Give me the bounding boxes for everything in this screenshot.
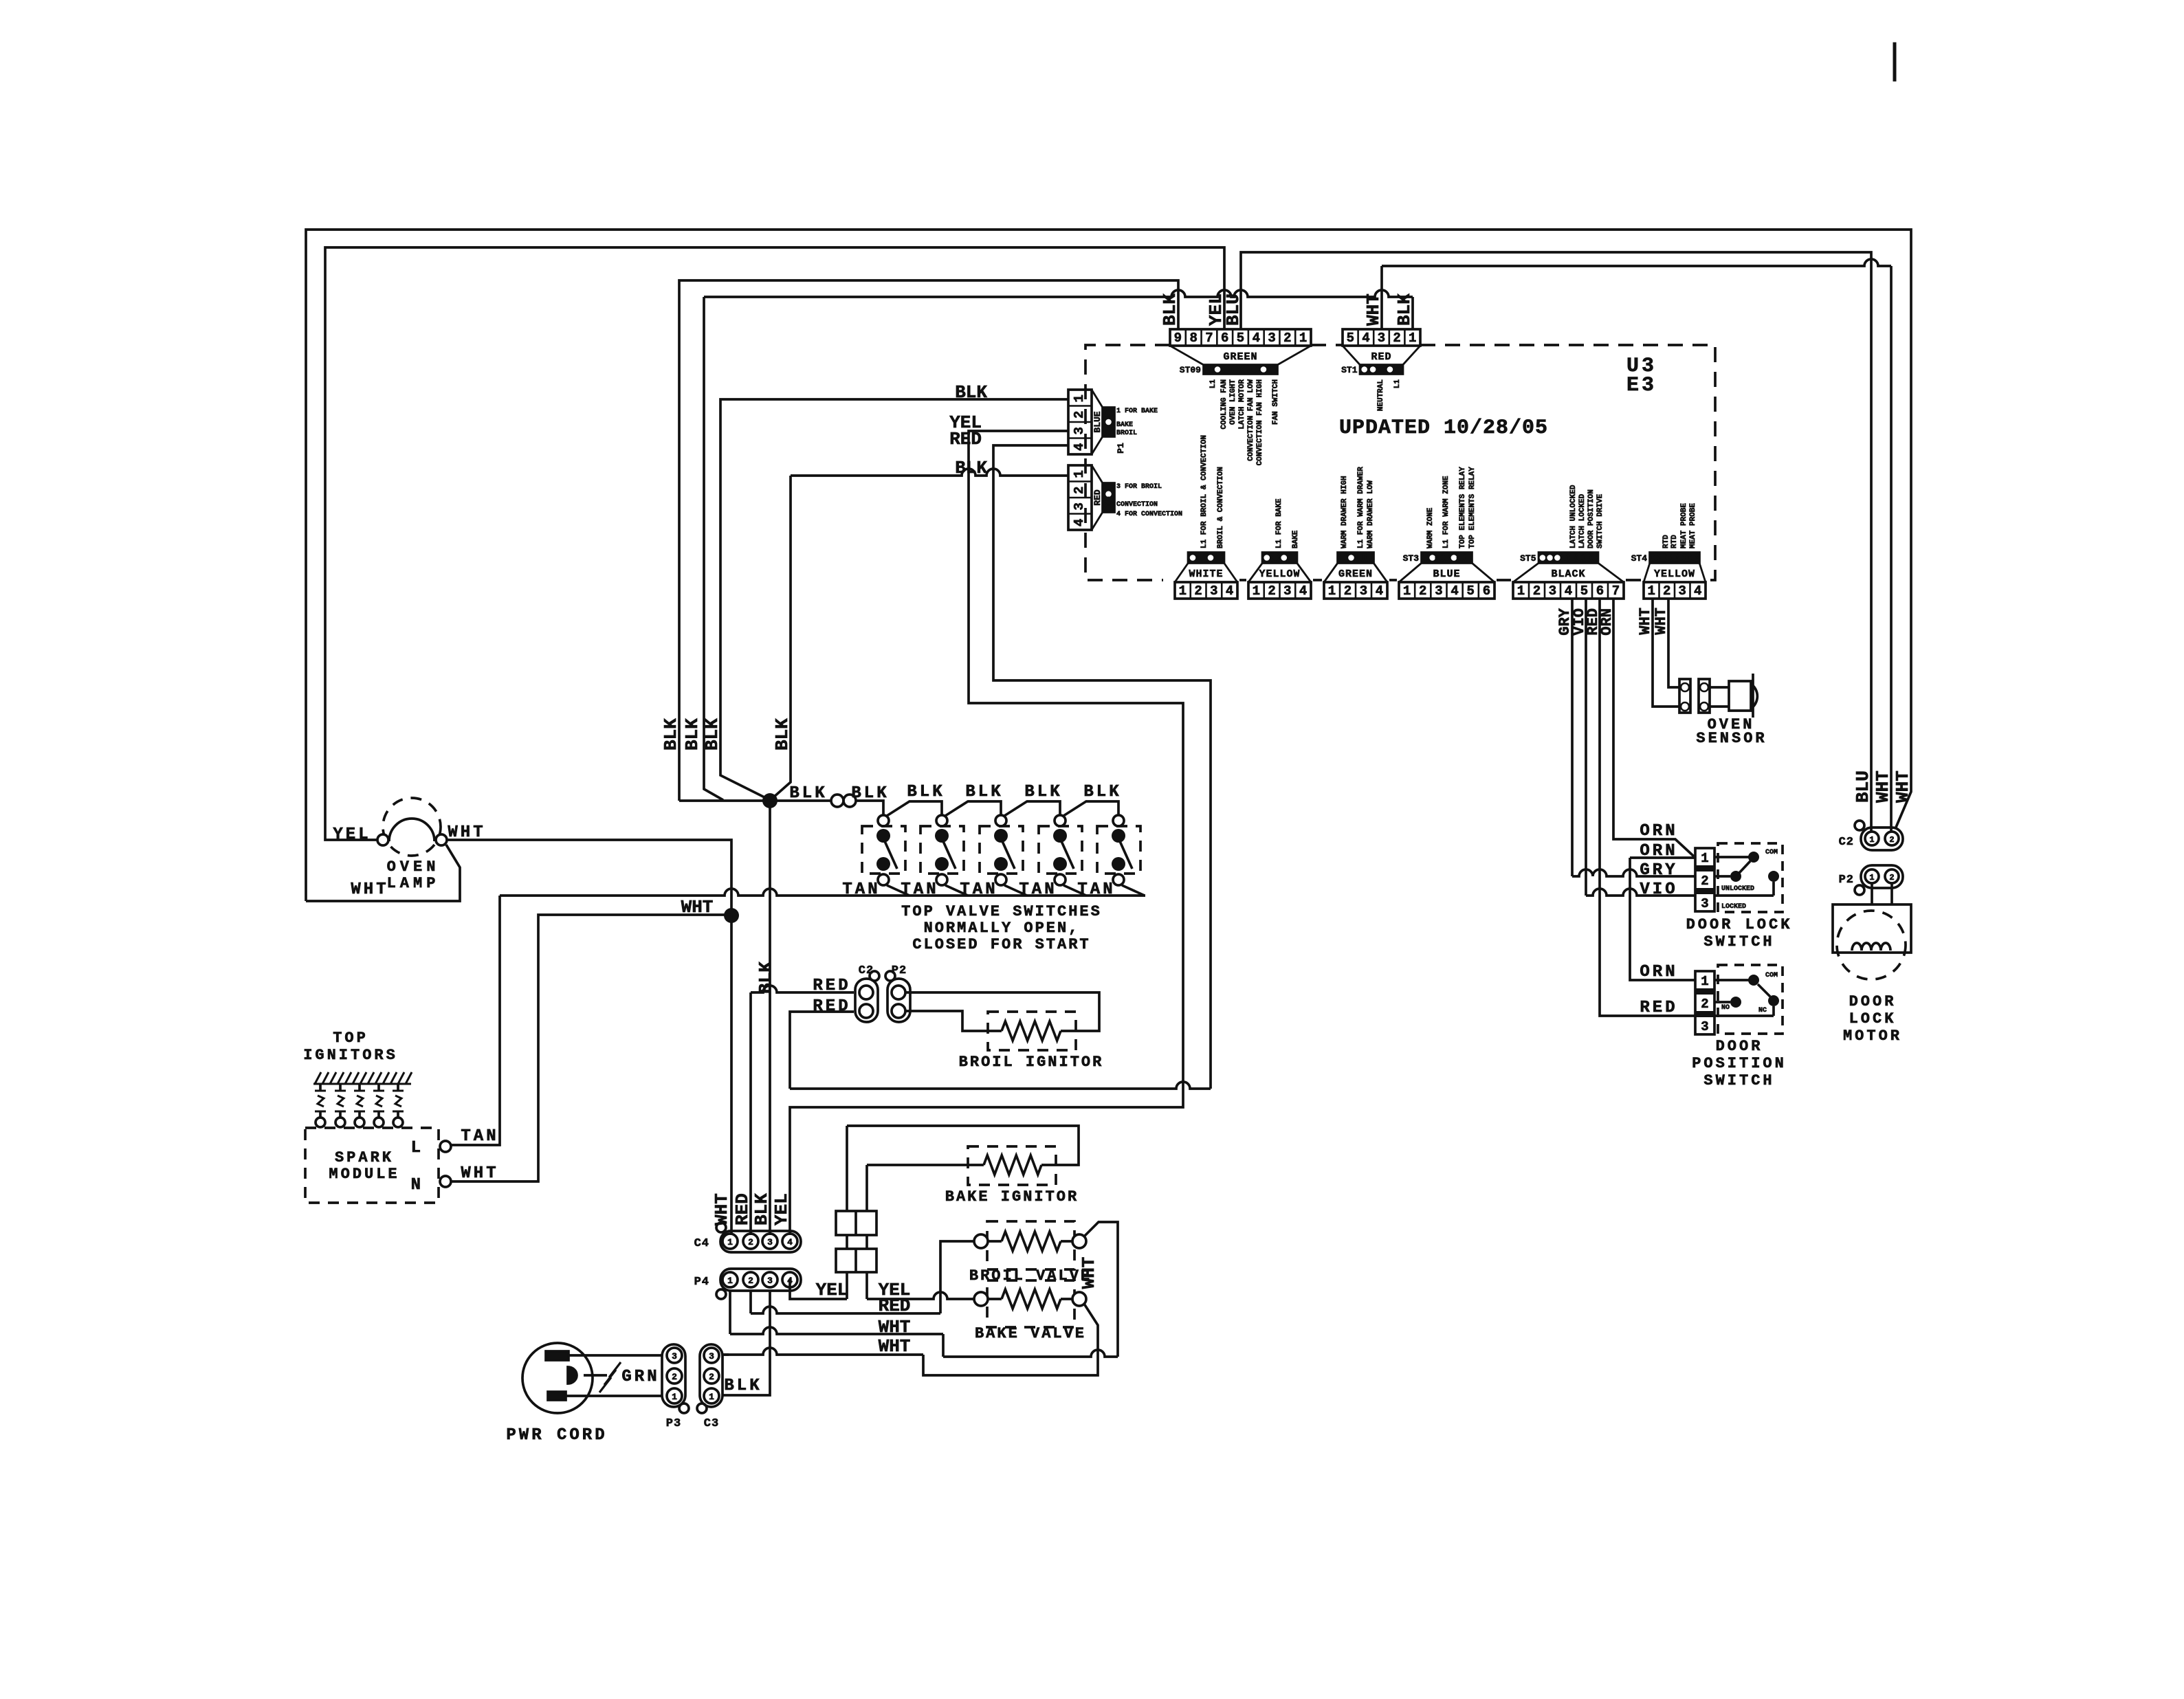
wire bake ignitor loop: [847, 1126, 1079, 1165]
wire WHT spark module N to J2: [451, 915, 731, 1181]
svg-text:BLK: BLK: [851, 784, 889, 803]
svg-text:YELLOW: YELLOW: [1654, 568, 1695, 580]
svg-text:WARM DRAWER LOW: WARM DRAWER LOW: [1367, 480, 1375, 548]
svg-text:1: 1: [727, 1237, 733, 1247]
wire BLK RED-left pin1: [791, 469, 1068, 476]
wire ORN branch to door position switch: [1630, 856, 1695, 859]
svg-text:P1: P1: [1116, 443, 1126, 454]
svg-text:4: 4: [1226, 584, 1233, 599]
top ignitor 5: [397, 1084, 399, 1091]
svg-text:5: 5: [1467, 584, 1475, 599]
svg-text:BLUE: BLUE: [1433, 568, 1460, 580]
top valve switch SW3: [980, 826, 1023, 874]
svg-text:3: 3: [1268, 331, 1275, 346]
svg-text:MEAT PROBE: MEAT PROBE: [1680, 503, 1688, 548]
svg-text:BLK: BLK: [1083, 783, 1121, 801]
connector WHITE board bottom: [1175, 582, 1237, 599]
svg-text:1: 1: [1253, 584, 1260, 599]
svg-text:COM: COM: [1765, 972, 1778, 979]
svg-text:8: 8: [1189, 331, 1197, 346]
svg-text:LATCH UNLOCKED: LATCH UNLOCKED: [1569, 485, 1578, 548]
svg-text:4: 4: [1253, 331, 1260, 346]
wire BLK C3 pin1 to P4 pin3: [723, 1291, 770, 1395]
svg-text:SPARK: SPARK: [335, 1149, 394, 1166]
svg-text:2: 2: [1889, 873, 1894, 882]
svg-text:1 FOR BAKE: 1 FOR BAKE: [1116, 408, 1158, 415]
svg-text:3: 3: [672, 1351, 677, 1362]
wire YEL oven lamp to GREEN pin6: [325, 247, 1224, 840]
svg-text:3: 3: [1701, 896, 1708, 911]
wire pwr cord to P3 pin1: [566, 1395, 662, 1397]
connector P1 BLUE board left: [1068, 390, 1092, 454]
connector BLACK ST5 board bottom: [1513, 582, 1624, 599]
wire WHT YELLOW-ST4 pin1 to oven sensor: [1653, 599, 1679, 707]
pwr cord prong top: [546, 1351, 569, 1360]
door lock motor coil: [1852, 943, 1890, 951]
svg-text:BAKE: BAKE: [1116, 421, 1133, 429]
svg-text:POSITION: POSITION: [1692, 1055, 1787, 1072]
node J2 white junction: [724, 908, 739, 923]
oven sensor leads: [1710, 686, 1729, 689]
svg-text:7: 7: [1205, 331, 1213, 346]
svg-text:BLU: BLU: [1223, 293, 1244, 326]
svg-text:COM: COM: [1765, 849, 1778, 856]
svg-text:C4: C4: [694, 1237, 709, 1250]
node J1 black junction: [679, 799, 770, 802]
svg-text:BLK: BLK: [661, 718, 681, 751]
svg-text:NEUTRAL: NEUTRAL: [1377, 379, 1385, 412]
wire WHT lamp-right to J2: [448, 840, 731, 911]
svg-text:BLK: BLK: [789, 784, 827, 803]
svg-text:YEL: YEL: [771, 1193, 792, 1225]
svg-text:BROIL & CONVECTION: BROIL & CONVECTION: [1217, 467, 1225, 548]
svg-text:6: 6: [1221, 331, 1228, 346]
svg-text:WHT: WHT: [712, 1193, 732, 1225]
bake valve dashed box: [987, 1280, 1074, 1327]
svg-text:WHITE: WHITE: [1189, 568, 1223, 580]
connector P3: [662, 1344, 685, 1407]
top ignitor 3: [358, 1084, 361, 1091]
door lock switch dashed box: [1718, 843, 1783, 912]
svg-text:UPDATED 10/28/05: UPDATED 10/28/05: [1339, 417, 1548, 440]
top valve switch SW2: [920, 826, 964, 874]
svg-text:3 FOR BROIL: 3 FOR BROIL: [1116, 483, 1162, 491]
svg-text:SENSOR: SENSOR: [1696, 730, 1767, 747]
connector C3: [700, 1344, 723, 1407]
door lock switch contacts: [1714, 856, 1749, 858]
ground symbol GRN: [609, 1362, 621, 1377]
svg-text:L1 FOR WARM DRAWER: L1 FOR WARM DRAWER: [1357, 467, 1365, 548]
spark module dashed box: [305, 1128, 439, 1203]
svg-text:3: 3: [1549, 584, 1556, 599]
svg-text:RED: RED: [813, 977, 850, 995]
wire block links: [846, 1235, 848, 1249]
svg-text:4: 4: [1451, 584, 1458, 599]
svg-text:4: 4: [1565, 584, 1572, 599]
svg-text:4: 4: [1376, 584, 1383, 599]
wire pwr cord to P3 pin3: [569, 1354, 662, 1357]
stray scan mark: [1893, 43, 1896, 81]
svg-text:MEAT PROBE: MEAT PROBE: [1689, 503, 1697, 548]
wire P2 to broil ignitor loop: [905, 992, 1099, 1031]
svg-text:2: 2: [1072, 411, 1087, 419]
wire GRY BLACK pin4 to door lock switch: [1571, 599, 1574, 876]
svg-text:TOP: TOP: [333, 1030, 368, 1047]
svg-text:1: 1: [1701, 974, 1708, 989]
svg-text:ST09: ST09: [1180, 365, 1201, 375]
svg-text:ST5: ST5: [1520, 553, 1536, 564]
svg-text:BLK: BLK: [751, 1193, 772, 1225]
svg-text:WHT: WHT: [879, 1336, 911, 1357]
wire BLK RED pin1: [704, 290, 1413, 297]
connector BLUE ST3 board bottom: [1399, 582, 1494, 599]
terminal block upper: [836, 1211, 876, 1235]
svg-text:DOOR: DOOR: [1849, 993, 1897, 1010]
wire WHT P4 pin1 to broil valve return: [729, 1291, 731, 1334]
svg-text:ST4: ST4: [1631, 553, 1648, 564]
svg-text:4: 4: [787, 1276, 793, 1286]
svg-text:TOP VALVE SWITCHES: TOP VALVE SWITCHES: [901, 903, 1102, 920]
wire WHT outer loop lamp-right to C2 pin2: [306, 230, 1911, 901]
svg-text:OVEN: OVEN: [387, 858, 440, 876]
oven lamp filament: [389, 819, 434, 841]
svg-text:LATCH LOCKED: LATCH LOCKED: [1578, 493, 1587, 548]
wire BLK junction to inline connector and switch 1: [770, 799, 831, 802]
door position switch pins: [1695, 971, 1714, 1034]
connector P4: [720, 1269, 801, 1291]
svg-text:YEL: YEL: [816, 1280, 848, 1300]
connector GREEN2 board bottom: [1324, 582, 1387, 599]
svg-text:4: 4: [1299, 584, 1307, 599]
wire BLK J1 to C4 pin3: [769, 808, 771, 1235]
svg-text:5: 5: [1237, 331, 1244, 346]
svg-text:RED: RED: [1640, 999, 1677, 1017]
svg-text:NO: NO: [1721, 1004, 1730, 1012]
svg-text:BLK: BLK: [682, 718, 703, 751]
wire TAN switch returns to bus: [887, 885, 909, 896]
wire BLK GREEN pin9: [679, 280, 1178, 801]
oven lamp dashed circle: [383, 798, 441, 856]
svg-text:1: 1: [727, 1276, 733, 1286]
svg-text:L1: L1: [1393, 379, 1402, 389]
svg-text:5: 5: [1347, 331, 1354, 346]
svg-text:BLU: BLU: [1853, 770, 1873, 803]
svg-text:3: 3: [1360, 584, 1367, 599]
control board dashed box U3 E3: [1085, 345, 1170, 580]
wire YEL P4 pin4 to terminal block: [790, 1279, 847, 1299]
svg-text:1: 1: [1869, 835, 1874, 845]
svg-text:2: 2: [1889, 835, 1894, 845]
wire YEL block to bake valve: [867, 1292, 974, 1299]
top ignitor 2: [339, 1084, 342, 1091]
svg-text:TAN: TAN: [901, 880, 938, 899]
svg-text:LOCK: LOCK: [1849, 1010, 1897, 1028]
top ignitors hatched ground bar: [313, 1083, 411, 1085]
wire RED P4 pin2 to broil valve: [749, 1291, 752, 1313]
svg-text:GREEN: GREEN: [1338, 568, 1373, 580]
svg-text:TAN: TAN: [461, 1127, 498, 1146]
svg-text:WHT: WHT: [1653, 608, 1670, 635]
svg-text:1: 1: [1648, 584, 1655, 599]
svg-text:5: 5: [1580, 584, 1588, 599]
svg-text:3: 3: [1378, 331, 1385, 346]
svg-text:1: 1: [1179, 584, 1187, 599]
svg-text:2: 2: [1283, 331, 1291, 346]
svg-text:P3: P3: [666, 1417, 681, 1430]
svg-text:C3: C3: [704, 1417, 719, 1430]
connector YELLOW ST4 board bottom: [1644, 582, 1706, 599]
broil valve dashed box: [987, 1221, 1074, 1269]
wire WHT C3 pin3: [723, 1353, 729, 1356]
bake ignitor dashed box: [968, 1146, 1056, 1185]
svg-text:ST1: ST1: [1341, 365, 1358, 375]
svg-text:DOOR LOCK: DOOR LOCK: [1686, 916, 1793, 933]
svg-text:1: 1: [1072, 395, 1087, 402]
svg-text:TOP ELEMENTS RELAY: TOP ELEMENTS RELAY: [1459, 467, 1467, 548]
svg-text:CONVECTION FAN HIGH: CONVECTION FAN HIGH: [1256, 379, 1264, 465]
bake ignitor resistor: [984, 1155, 1041, 1175]
svg-text:RED: RED: [1092, 489, 1103, 506]
svg-text:ORN: ORN: [1640, 822, 1677, 841]
svg-text:WHT: WHT: [1873, 770, 1893, 803]
svg-text:FAN SWITCH: FAN SWITCH: [1272, 379, 1280, 425]
door position switch contacts: [1714, 979, 1749, 981]
broil ignitor resistor: [1002, 1021, 1061, 1041]
svg-text:BLK: BLK: [1394, 293, 1415, 326]
svg-text:3: 3: [1701, 1019, 1708, 1034]
connector P2 broil: [887, 979, 910, 1022]
svg-text:P2: P2: [1839, 874, 1854, 887]
svg-text:P2: P2: [892, 964, 907, 977]
svg-text:BLUE: BLUE: [1092, 411, 1103, 432]
bake valve terminal right: [1072, 1292, 1086, 1306]
svg-text:GREEN: GREEN: [1223, 351, 1257, 363]
oven lamp terminal left: [377, 834, 388, 845]
svg-text:ORN: ORN: [1640, 842, 1677, 860]
svg-text:BAKE VALVE: BAKE VALVE: [975, 1325, 1086, 1342]
svg-text:4: 4: [1072, 443, 1087, 451]
oven sensor terminal block A: [1679, 679, 1690, 713]
svg-text:TAN: TAN: [842, 880, 880, 899]
svg-text:2: 2: [1533, 584, 1541, 599]
svg-text:DOOR POSITION: DOOR POSITION: [1587, 489, 1596, 548]
svg-text:BROIL VALVE: BROIL VALVE: [969, 1267, 1092, 1285]
svg-text:PWR CORD: PWR CORD: [506, 1426, 607, 1445]
svg-text:BLK: BLK: [955, 382, 987, 403]
svg-text:LOCKED: LOCKED: [1721, 903, 1746, 911]
svg-text:WARM DRAWER HIGH: WARM DRAWER HIGH: [1341, 476, 1349, 548]
wire WHT YELLOW-ST4 pin2 to oven sensor: [1668, 599, 1679, 687]
svg-text:4: 4: [787, 1237, 793, 1247]
wire RED C4 pin2 to C2 top: [751, 986, 854, 992]
svg-text:BLK: BLK: [955, 458, 987, 478]
svg-text:N: N: [411, 1176, 421, 1195]
svg-text:2: 2: [1701, 997, 1708, 1012]
broil ignitor dashed box: [988, 1012, 1076, 1050]
svg-text:4 FOR CONVECTION: 4 FOR CONVECTION: [1116, 511, 1182, 518]
svg-text:BLK: BLK: [965, 783, 1003, 801]
broil valve terminal left: [974, 1234, 988, 1248]
svg-text:BLK: BLK: [907, 783, 945, 801]
svg-text:2: 2: [1701, 874, 1708, 889]
svg-text:RED: RED: [732, 1193, 753, 1225]
connector YELLOW board bottom: [1248, 582, 1311, 599]
svg-text:GRY: GRY: [1640, 861, 1677, 880]
svg-text:YEL: YEL: [333, 825, 371, 844]
top valve switch SW5: [1097, 826, 1140, 874]
bake valve resistor: [988, 1298, 1002, 1300]
svg-text:1: 1: [1328, 584, 1336, 599]
svg-text:MOTOR: MOTOR: [1843, 1028, 1902, 1045]
svg-text:C2: C2: [1839, 836, 1854, 849]
svg-text:1: 1: [1701, 851, 1708, 866]
svg-text:SWITCH DRIVE: SWITCH DRIVE: [1596, 493, 1604, 548]
svg-text:2: 2: [1194, 584, 1202, 599]
svg-text:BLK: BLK: [1160, 293, 1180, 326]
door lock motor box: [1833, 904, 1911, 953]
svg-text:RTD: RTD: [1662, 535, 1670, 548]
svg-text:BROIL: BROIL: [1116, 430, 1137, 437]
svg-text:3: 3: [767, 1276, 773, 1286]
svg-text:6: 6: [1596, 584, 1604, 599]
connector C2 broil: [855, 979, 878, 1022]
svg-text:1: 1: [1403, 584, 1411, 599]
svg-text:BAKE IGNITOR: BAKE IGNITOR: [945, 1188, 1079, 1206]
svg-text:P4: P4: [694, 1276, 709, 1289]
wire YEL P1 pin3 to C4 pin4: [790, 431, 1183, 1235]
svg-text:3: 3: [767, 1237, 773, 1247]
door position switch dashed box: [1718, 965, 1783, 1034]
svg-text:WHT: WHT: [351, 880, 388, 899]
svg-text:2: 2: [748, 1276, 753, 1286]
svg-text:1: 1: [1299, 331, 1307, 346]
svg-text:WHT: WHT: [448, 823, 485, 842]
svg-text:BROIL IGNITOR: BROIL IGNITOR: [959, 1054, 1104, 1071]
connector RED ST1 board top: [1343, 329, 1420, 346]
svg-text:BLK: BLK: [755, 962, 776, 994]
svg-text:RTD: RTD: [1670, 535, 1679, 548]
svg-text:WHT: WHT: [1363, 293, 1384, 326]
oven sensor bulb: [1729, 681, 1751, 711]
svg-text:RED: RED: [879, 1296, 911, 1316]
wire P2 bottom to broil ignitor resistor: [905, 1011, 1002, 1031]
svg-text:1: 1: [672, 1392, 677, 1402]
svg-text:WHT: WHT: [1079, 1257, 1099, 1289]
svg-text:2: 2: [1393, 331, 1400, 346]
top valve switch SW1: [862, 826, 905, 874]
svg-text:E3: E3: [1626, 374, 1657, 397]
svg-text:3: 3: [1679, 584, 1686, 599]
top ignitor 4: [377, 1084, 380, 1091]
wire BLU GREEN pin5 to C2 pin1: [1241, 252, 1871, 832]
wire pwr cord ground GRN: [584, 1374, 607, 1377]
svg-text:L1 FOR BAKE: L1 FOR BAKE: [1275, 498, 1283, 548]
svg-text:RED: RED: [813, 997, 850, 1016]
svg-text:2: 2: [1344, 584, 1352, 599]
svg-text:7: 7: [1612, 584, 1620, 599]
svg-text:TAN: TAN: [960, 880, 997, 899]
svg-text:L1 FOR WARM ZONE: L1 FOR WARM ZONE: [1442, 476, 1451, 548]
bake valve terminal left: [974, 1292, 988, 1306]
svg-text:LAMP: LAMP: [387, 875, 440, 892]
top valve switch SW4: [1039, 826, 1082, 874]
svg-text:C2: C2: [859, 964, 874, 977]
connector RED board left: [1068, 465, 1092, 530]
top ignitor 1: [319, 1084, 322, 1091]
svg-text:ORN: ORN: [1640, 963, 1677, 981]
wire BLK top valve switch chain: [887, 801, 942, 816]
svg-text:3: 3: [1435, 584, 1442, 599]
svg-text:WHT: WHT: [1893, 770, 1913, 803]
wire WHT RED pin3 to C2 pin2: [1382, 259, 1891, 266]
wire WHT J2 to C4 pin1: [730, 915, 733, 1235]
svg-text:RED: RED: [949, 429, 982, 449]
oven lamp terminal right: [436, 834, 447, 845]
svg-text:3: 3: [1210, 584, 1217, 599]
svg-text:CONVECTION FAN LOW: CONVECTION FAN LOW: [1247, 379, 1255, 461]
svg-text:BLACK: BLACK: [1551, 568, 1585, 580]
wire BLK P1 BLUE pin1: [720, 399, 1068, 799]
svg-text:1: 1: [1517, 584, 1525, 599]
svg-text:L1: L1: [1209, 379, 1217, 389]
svg-text:SWITCH: SWITCH: [1703, 1072, 1774, 1089]
wire WHT C3 pin3 to bake valve return: [723, 1348, 923, 1355]
svg-text:WHT: WHT: [1637, 608, 1654, 635]
broil valve terminal right: [1072, 1234, 1086, 1248]
svg-text:IGNITORS: IGNITORS: [303, 1047, 398, 1064]
svg-text:BAKE: BAKE: [1292, 530, 1300, 548]
svg-text:1: 1: [709, 1392, 714, 1402]
svg-text:3: 3: [1072, 427, 1087, 434]
wire RED BLACK pin6 to door position switch: [1600, 599, 1695, 1016]
svg-text:BLK: BLK: [772, 718, 793, 751]
door lock switch pins: [1695, 848, 1714, 911]
wire RED P1 pin4 to C2 bottom: [993, 445, 1211, 1089]
svg-text:UNLOCKED: UNLOCKED: [1721, 885, 1754, 893]
svg-text:2: 2: [1419, 584, 1426, 599]
wire P2 to door lock motor: [1871, 883, 1873, 904]
svg-text:2: 2: [1663, 584, 1670, 599]
svg-text:9: 9: [1174, 331, 1182, 346]
svg-text:L1 FOR BROIL & CONVECTION: L1 FOR BROIL & CONVECTION: [1200, 435, 1209, 548]
connector GREEN ST09 board top: [1170, 329, 1311, 346]
svg-text:CLOSED FOR START: CLOSED FOR START: [912, 936, 1090, 953]
svg-text:NORMALLY OPEN,: NORMALLY OPEN,: [924, 920, 1080, 937]
oven sensor terminal block B: [1699, 679, 1710, 713]
svg-text:4: 4: [1072, 519, 1087, 526]
svg-text:ORN: ORN: [1598, 608, 1615, 636]
svg-text:BLK: BLK: [1024, 783, 1062, 801]
svg-text:4: 4: [1694, 584, 1701, 599]
svg-text:2: 2: [1268, 584, 1275, 599]
svg-text:4: 4: [1362, 331, 1369, 346]
svg-text:LATCH MOTOR: LATCH MOTOR: [1238, 379, 1246, 430]
pwr cord ground pin: [568, 1367, 577, 1384]
svg-text:ST3: ST3: [1403, 553, 1420, 564]
connector C2 right: [1855, 821, 1864, 830]
svg-text:2: 2: [709, 1372, 714, 1382]
svg-text:TAN: TAN: [1019, 880, 1057, 899]
wire ORN BLACK pin7 to door lock switch: [1613, 599, 1694, 856]
svg-text:MODULE: MODULE: [329, 1166, 399, 1183]
svg-text:VIO: VIO: [1640, 880, 1677, 899]
svg-text:1: 1: [1409, 331, 1416, 346]
svg-text:TOP ELEMENTS RELAY: TOP ELEMENTS RELAY: [1468, 467, 1477, 548]
svg-text:WARM ZONE: WARM ZONE: [1426, 507, 1435, 548]
connector P2 right: [1861, 865, 1903, 888]
svg-text:WHT: WHT: [461, 1164, 498, 1183]
svg-text:GRN: GRN: [621, 1368, 659, 1386]
